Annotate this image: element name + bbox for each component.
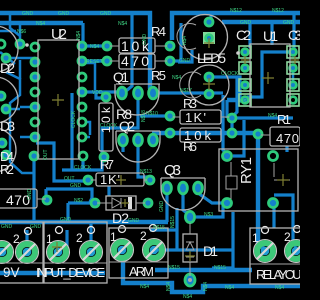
svg-text:N$12: N$12 [272,8,284,14]
svg-text:D3: D3 [0,118,15,134]
svg-text:1: 1 [252,231,259,245]
svg-text:Q1: Q1 [113,69,129,85]
svg-text:Q3: Q3 [164,162,181,179]
svg-text:N$4: N$4 [225,285,234,291]
svg-text:N$4: N$4 [240,99,249,105]
svg-text:1K': 1K' [100,172,120,187]
svg-text:N$4: N$4 [166,282,172,291]
svg-text:N$2: N$2 [74,198,83,204]
svg-text:470: 470 [276,131,299,146]
svg-text:VDD: VDD [92,90,103,96]
svg-text:GND: GND [283,20,295,26]
svg-text:1: 1 [46,232,53,246]
svg-text:D2: D2 [112,210,129,226]
svg-text:R1: R1 [277,112,291,127]
svg-text:CLOCK: CLOCK [100,123,118,129]
svg-text:D2: D2 [0,60,15,76]
svg-text:U1: U1 [263,28,278,44]
svg-text:N$4: N$4 [36,21,45,27]
svg-text:N$4: N$4 [172,75,181,81]
svg-text:N$4: N$4 [182,36,188,45]
svg-text:R5: R5 [151,68,166,83]
svg-text:GND: GND [58,11,70,17]
svg-text:2: 2 [76,231,83,245]
svg-text:N$15: N$15 [170,216,176,228]
svg-text:U2: U2 [51,26,67,43]
svg-text:RY1: RY1 [238,157,255,184]
svg-text:N$4: N$4 [118,21,127,27]
svg-text:GND: GND [240,20,252,26]
svg-text:GND: GND [60,217,72,223]
svg-text:GND: GND [100,11,112,17]
svg-text:N$15: N$15 [153,225,165,231]
svg-text:C2: C2 [236,27,251,43]
svg-text:OUT: OUT [43,149,49,160]
svg-text:CLOCK: CLOCK [74,165,92,171]
svg-text:GND: GND [159,201,165,213]
svg-text:R7: R7 [100,157,114,172]
svg-text:2: 2 [13,232,20,246]
svg-text:GND: GND [30,224,42,230]
svg-text:GND: GND [22,11,34,17]
svg-text:RESET: RESET [86,59,103,65]
svg-text:GND: GND [70,183,82,189]
svg-text:9V: 9V [3,265,20,280]
svg-text:N$3: N$3 [204,212,213,218]
svg-text:N$4: N$4 [140,284,149,290]
svg-text:GND: GND [1,224,13,230]
svg-text:N$13: N$13 [140,169,152,175]
svg-text:N$4: N$4 [90,44,99,50]
svg-text:N$6: N$6 [17,29,26,35]
svg-text:R4: R4 [151,24,166,39]
svg-text:N$17: N$17 [180,88,192,94]
svg-text:2: 2 [140,229,147,243]
svg-text:GND: GND [128,218,140,224]
svg-text:2: 2 [284,230,291,244]
svg-text:OUT: OUT [64,176,75,182]
svg-text:N$4: N$4 [76,31,82,40]
svg-text:N$4: N$4 [203,282,209,291]
svg-text:C3: C3 [288,27,300,43]
svg-text:N$4: N$4 [275,285,284,291]
svg-text:N$10: N$10 [146,111,158,117]
svg-text:GND: GND [27,189,33,201]
svg-text:1: 1 [110,230,117,244]
svg-text:470: 470 [121,53,149,69]
svg-text:N$4: N$4 [268,113,277,119]
svg-text:INPUT_DEVICE: INPUT_DEVICE [36,265,105,280]
svg-text:Q2: Q2 [119,118,135,134]
svg-text:LED5: LED5 [197,50,226,66]
svg-text:N$15: N$15 [168,265,180,271]
svg-text:R3: R3 [183,96,197,111]
svg-text:N$4: N$4 [183,294,192,300]
svg-text:RELAYOUT: RELAYOUT [256,267,300,282]
svg-text:1K': 1K' [185,110,206,125]
svg-text:R6: R6 [183,139,197,154]
svg-text:D1: D1 [203,243,218,259]
svg-text:ARM: ARM [129,264,154,279]
svg-text:GND: GND [142,34,148,46]
svg-text:R2: R2 [0,162,14,177]
svg-text:CLOCK: CLOCK [221,71,239,77]
svg-text:N$12: N$12 [230,8,242,14]
svg-text:N$15: N$15 [214,265,226,271]
svg-text:GND: GND [179,58,191,64]
svg-text:CLOCK: CLOCK [71,110,77,128]
